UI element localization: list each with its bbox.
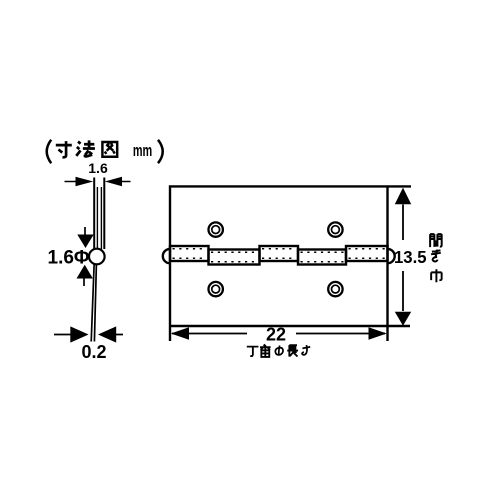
svg-text:0.2: 0.2 bbox=[81, 342, 106, 362]
svg-text:mm: mm bbox=[133, 141, 152, 160]
svg-text:1.6Φ: 1.6Φ bbox=[48, 248, 90, 269]
svg-text:22: 22 bbox=[266, 325, 286, 345]
svg-text:13.5: 13.5 bbox=[394, 246, 427, 267]
svg-text:1.6: 1.6 bbox=[88, 160, 108, 176]
